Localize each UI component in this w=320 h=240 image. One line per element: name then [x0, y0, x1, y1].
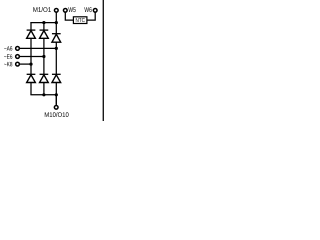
- wire riser to top rail: [55, 12, 57, 22]
- diode D4: [27, 73, 36, 75]
- diode D3: [52, 33, 61, 35]
- label M10/O10: [45, 112, 69, 117]
- node dot bottom rail / leg3: [55, 93, 58, 96]
- wire bottom rail: [30, 94, 56, 96]
- terminal ~A6: [16, 47, 20, 51]
- node dot line3 / leg1: [29, 63, 32, 66]
- wire leg2 middle: [43, 39, 45, 74]
- wire AC line 3: [19, 63, 31, 65]
- wire leg3 middle: [55, 42, 57, 74]
- terminal ~K8: [16, 62, 20, 66]
- wire leg3 lower: [55, 83, 57, 105]
- diode D6: [52, 73, 61, 75]
- wire leg3 upper: [55, 23, 57, 33]
- label W5: [68, 7, 75, 12]
- terminal ~E6: [16, 55, 20, 59]
- wire bottom riser: [55, 95, 57, 105]
- label W6: [84, 7, 91, 12]
- node dot top rail / leg3: [55, 21, 58, 24]
- wire top rail: [30, 22, 56, 24]
- diode D1: [27, 29, 36, 31]
- node dot bottom rail / leg2: [42, 93, 45, 96]
- label ~E6: [4, 54, 12, 59]
- node dot top rail / leg2: [42, 21, 45, 24]
- wire leg1 middle: [30, 39, 32, 74]
- wire W6 to NTC: [87, 12, 95, 20]
- diode D5: [40, 73, 49, 75]
- label ~A6: [4, 46, 12, 51]
- wire AC line 1: [19, 47, 56, 49]
- node dot line2 / leg2: [42, 55, 45, 58]
- node dot line1 / leg3: [55, 47, 58, 50]
- diode D2: [40, 29, 49, 31]
- wire W5 to NTC: [65, 12, 73, 20]
- terminal W5: [63, 8, 67, 12]
- label NTC: [76, 18, 85, 22]
- wire AC line 2: [19, 56, 44, 58]
- wire leg2 upper: [43, 23, 45, 30]
- right page border: [103, 0, 104, 121]
- thermistor NTC box: [73, 17, 87, 24]
- wire leg1 upper: [30, 22, 32, 30]
- terminal M1/O1: [54, 8, 58, 12]
- wire leg2 lower: [43, 83, 45, 95]
- label ~K8: [4, 62, 12, 67]
- terminal M10/O10: [54, 105, 58, 109]
- label M1/O1: [33, 7, 51, 12]
- wire leg1 lower: [30, 83, 32, 95]
- terminal W6: [93, 8, 97, 12]
